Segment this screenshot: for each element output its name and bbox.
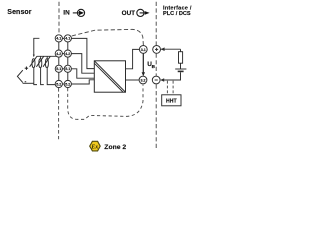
- sensor transmitter chevron: [17, 70, 22, 82]
- svg-text:HHT: HHT: [166, 98, 177, 104]
- output + terminal: [153, 46, 161, 54]
- sensor + label: [25, 67, 28, 70]
- supply battery: [175, 68, 186, 70]
- terminal pair link row 4: [62, 83, 66, 85]
- svg-text:3.2: 3.2: [141, 78, 146, 82]
- dashed zone boundary at OUT (vertical, to + terminal): [155, 2, 157, 45]
- wire terminal 4.2 to isolator: [71, 54, 94, 74]
- dashed boundary below left terminal 5.2: [58, 88, 60, 139]
- wire stub to loop 2: [40, 56, 42, 59]
- Ex hexagon: [90, 141, 101, 151]
- terminal pair link row 3: [62, 68, 66, 70]
- svg-text:Zone 2: Zone 2: [104, 144, 126, 151]
- svg-text:OUT: OUT: [122, 10, 136, 17]
- wire + terminal to load (arrow into +): [161, 48, 181, 50]
- supply voltage arrow UB: [142, 54, 144, 73]
- svg-text:4.1: 4.1: [65, 37, 70, 41]
- right terminal column link: [67, 38, 69, 84]
- dashed boundary between + and - terminals: [155, 54, 157, 76]
- wire down to load resistor: [180, 49, 182, 52]
- svg-text:Ex: Ex: [90, 145, 98, 151]
- terminal 5.2 left: [55, 80, 62, 87]
- terminal 5.2 right: [64, 80, 71, 87]
- dashed boundary from right terminal 5.2 to terminal 3.2: [68, 85, 143, 120]
- sensor loop 3: [45, 59, 48, 68]
- left terminal column link: [58, 38, 60, 84]
- svg-text:Sensor: Sensor: [7, 9, 32, 16]
- dashed boundary from terminal 4.1 to terminal 3.1: [72, 29, 144, 45]
- wire terminal 5.1 to isolator: [71, 69, 94, 78]
- wire battery to - terminal (arrow into -): [161, 72, 181, 80]
- slash through loop 3: [43, 56, 50, 67]
- wire stub to loop 3: [46, 56, 48, 59]
- terminal 5.1 left: [55, 65, 62, 72]
- svg-text:4.2: 4.2: [65, 52, 70, 56]
- terminal 4.2 right: [64, 50, 71, 57]
- wire sensor minus to bus: [23, 82, 34, 84]
- OUT arrow symbol: [137, 9, 145, 16]
- sensor wire 2 down: [41, 68, 44, 85]
- sensor loop 2: [39, 59, 42, 68]
- svg-text:5.2: 5.2: [56, 82, 61, 86]
- wire terminal 4.1 to isolator: [71, 38, 94, 68]
- terminal 4.1 left: [55, 35, 62, 42]
- terminal pair link row 1: [62, 37, 66, 39]
- wire sensor top bus to terminal 4.2: [37, 56, 57, 59]
- terminal 3.1: [139, 46, 147, 54]
- HHT box: [162, 95, 181, 106]
- IN arrow symbol: [73, 9, 85, 16]
- slash through loop 1: [30, 56, 37, 67]
- dashed HHT connection right: [172, 81, 174, 95]
- svg-text:3.1: 3.1: [141, 48, 146, 52]
- svg-text:Interface /: Interface /: [163, 5, 192, 11]
- wire resistor to battery: [180, 63, 182, 69]
- svg-text:5.1: 5.1: [65, 67, 70, 71]
- svg-text:5.1: 5.1: [56, 67, 61, 71]
- sensor loop 1: [32, 59, 35, 68]
- terminal 5.1 right: [64, 65, 71, 72]
- sensor wire 3 down to terminal 5.2: [47, 68, 55, 85]
- svg-text:-: -: [25, 79, 27, 85]
- terminal pair link row 2: [62, 53, 66, 55]
- output - terminal: [152, 76, 160, 84]
- terminal 3.2: [139, 76, 147, 84]
- dashed boundary below - terminal: [155, 84, 157, 150]
- isolation amplifier U1: [94, 61, 125, 92]
- dashed zone boundary at IN (vertical): [58, 2, 60, 35]
- svg-text:IN: IN: [63, 10, 70, 17]
- wire isolator to terminal 3.1: [126, 49, 140, 68]
- svg-text:4.1: 4.1: [56, 37, 61, 41]
- load resistor: [179, 52, 183, 64]
- dashed HHT connection left: [166, 81, 168, 95]
- slash through loop 2: [36, 56, 43, 67]
- svg-text:5.2: 5.2: [65, 82, 70, 86]
- terminal 4.1 right: [64, 35, 71, 42]
- sensor + branch wire with down arrow: [34, 38, 40, 55]
- svg-text:4.2: 4.2: [56, 52, 61, 56]
- sensor wire 1 down: [34, 68, 37, 85]
- svg-text:PLC / DCS: PLC / DCS: [163, 11, 191, 17]
- terminal 4.2 left: [55, 50, 62, 57]
- wire terminal 5.2 to isolator: [71, 80, 94, 84]
- wire isolator to terminal 3.2: [126, 79, 140, 81]
